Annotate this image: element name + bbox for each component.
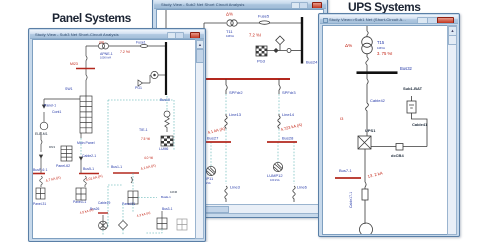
svg-text:PG1: PG1	[135, 86, 142, 90]
svg-text:Bus24: Bus24	[306, 60, 318, 65]
svg-text:LUMP12: LUMP12	[267, 173, 283, 178]
svg-text:3. 75 %I: 3. 75 %I	[377, 51, 392, 56]
svg-text:APNE-1: APNE-1	[100, 52, 113, 56]
svg-text:1000 kVA: 1000 kVA	[100, 56, 111, 60]
svg-text:Cable42: Cable42	[370, 98, 386, 103]
svg-text:Cable19: Cable19	[98, 201, 110, 205]
svg-text:Line14: Line14	[282, 112, 295, 117]
svg-text:SPFdr3: SPFdr3	[282, 90, 296, 95]
svg-text:13. 2 kA: 13. 2 kA	[367, 170, 383, 179]
svg-text:Bus27: Bus27	[207, 136, 219, 141]
svg-text:Bus10: Bus10	[160, 98, 170, 102]
svg-text:Line6: Line6	[297, 185, 308, 190]
svg-text:I3: I3	[340, 116, 344, 121]
svg-text:BusE-1: BusE-1	[161, 195, 171, 199]
svg-text:1MVA: 1MVA	[226, 34, 234, 38]
svg-text:Δ%: Δ%	[226, 12, 233, 17]
svg-text:10N6: 10N6	[170, 190, 178, 194]
svg-text:MI23: MI23	[70, 62, 78, 66]
svg-text:7.2 %I: 7.2 %I	[120, 50, 130, 54]
svg-text:Cable2-1: Cable2-1	[82, 154, 96, 158]
svg-text:Bus28: Bus28	[282, 136, 294, 141]
svg-text:Δ%: Δ%	[99, 40, 104, 44]
svg-text:4.723 kA (A): 4.723 kA (A)	[280, 122, 303, 132]
svg-text:SW1: SW1	[65, 87, 73, 91]
svg-text:LUM6: LUM6	[159, 147, 168, 151]
svg-text:Line3: Line3	[230, 185, 241, 190]
svg-text:Bus5-1: Bus5-1	[83, 167, 94, 171]
svg-text:1MVA: 1MVA	[377, 46, 385, 50]
svg-text:Panel-51: Panel-51	[122, 202, 135, 206]
svg-text:Sub1-BAT: Sub1-BAT	[403, 86, 423, 91]
svg-text:Panel-62: Panel-62	[56, 164, 70, 168]
svg-text:4.7 kA (A): 4.7 kA (A)	[45, 175, 61, 183]
svg-text:DN3: DN3	[49, 145, 55, 149]
svg-text:Bus1-1: Bus1-1	[111, 165, 122, 169]
svg-text:Panel-L1: Panel-L1	[73, 200, 86, 204]
svg-text:Line13: Line13	[229, 112, 242, 117]
svg-text:UPS1: UPS1	[365, 128, 376, 133]
svg-text:PG3: PG3	[257, 59, 266, 64]
svg-text:ELE-M1: ELE-M1	[35, 132, 48, 136]
svg-text:100 kVA: 100 kVA	[270, 178, 280, 182]
svg-text:Cont1: Cont1	[52, 110, 61, 114]
svg-text:7.5 %I: 7.5 %I	[141, 137, 150, 141]
svg-text:7.2 %I: 7.2 %I	[249, 33, 261, 38]
svg-text:Fuse5: Fuse5	[258, 14, 270, 19]
svg-text:4.01 kA (A): 4.01 kA (A)	[85, 174, 103, 182]
svg-text:Cable41: Cable41	[412, 122, 428, 127]
svg-text:Δ%: Δ%	[345, 43, 352, 48]
svg-text:Bus7-1: Bus7-1	[339, 168, 352, 173]
svg-text:dcCB4: dcCB4	[391, 153, 404, 158]
svg-text:4.1 kA (A): 4.1 kA (A)	[140, 163, 156, 171]
svg-text:TIE-1: TIE-1	[139, 128, 148, 132]
svg-text:Fuse1: Fuse1	[136, 41, 146, 45]
svg-text:Panel-31: Panel-31	[33, 202, 46, 206]
svg-text:Bus3-1: Bus3-1	[162, 207, 173, 211]
svg-text:Bus32: Bus32	[400, 66, 413, 71]
svg-text:T15: T15	[377, 40, 385, 45]
svg-text:Cable17-1: Cable17-1	[349, 192, 353, 208]
svg-text:4.1 kA (A): 4.1 kA (A)	[207, 126, 226, 135]
svg-text:4.5 kA (A): 4.5 kA (A)	[79, 208, 94, 215]
svg-text:Panel-1: Panel-1	[44, 104, 56, 108]
svg-text:4.0 %I: 4.0 %I	[144, 156, 153, 160]
svg-text:Main Panel: Main Panel	[77, 141, 95, 145]
svg-text:SPFdr2: SPFdr2	[229, 90, 243, 95]
svg-text:4.3 kA (A): 4.3 kA (A)	[136, 211, 151, 218]
svg-text:BusP-6 1: BusP-6 1	[33, 168, 47, 172]
